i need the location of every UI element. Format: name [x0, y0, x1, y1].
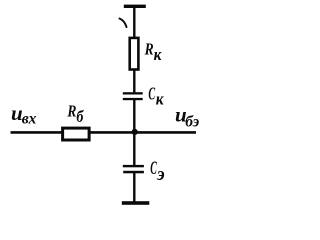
capacitor Cк: [123, 92, 143, 100]
terminal bar bottom (emitter rail): [122, 201, 150, 205]
label Rб: [67, 102, 85, 126]
svg-text:к: к: [156, 91, 165, 109]
label Cк: [148, 85, 164, 109]
wire: Cэ down to bottom bar: [133, 173, 135, 203]
wire: top bar down to Rк: [133, 8, 135, 39]
svg-text:э: э: [156, 164, 165, 186]
label uвх (input voltage): [11, 101, 37, 128]
wire: Rб to node: [90, 131, 134, 134]
svg-text:C: C: [148, 85, 155, 105]
label uбэ (base-emitter voltage): [175, 102, 200, 130]
svg-text:вх: вх: [22, 111, 37, 128]
label Cэ: [150, 159, 165, 185]
svg-text:R: R: [67, 102, 77, 121]
label Rк: [144, 40, 162, 64]
svg-text:к: к: [154, 47, 163, 65]
resistor Rб: [63, 128, 90, 140]
wire: node to output (right): [134, 131, 196, 134]
wire: input terminal to Rб: [11, 131, 64, 134]
break mark (tick near top wire): [120, 19, 127, 28]
svg-text:бэ: бэ: [185, 114, 200, 131]
resistor Rк: [130, 38, 139, 70]
wire: Cк down to node: [133, 100, 135, 133]
capacitor Cэ: [123, 165, 144, 173]
terminal bar top (collector supply rail): [124, 5, 146, 8]
node (junction dot): [132, 129, 138, 135]
svg-text:R: R: [144, 40, 154, 59]
wire: node down to Cэ: [133, 132, 135, 166]
wire: Rк down to Cк: [133, 70, 135, 93]
